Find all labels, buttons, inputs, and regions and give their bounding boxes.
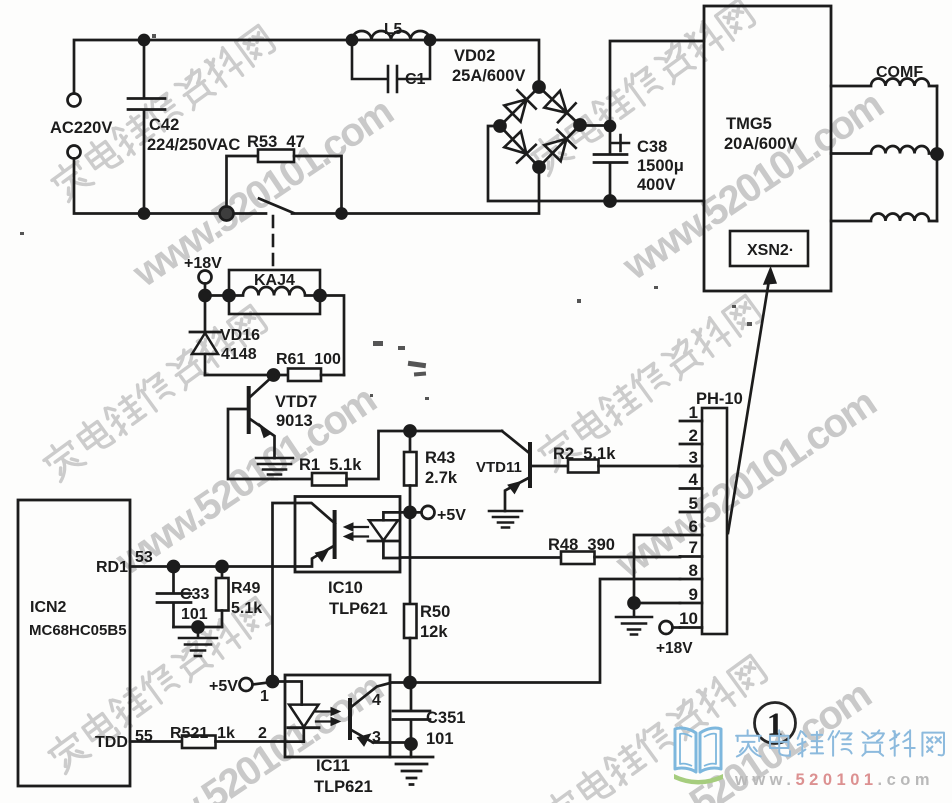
wire C33 R49 join bbox=[174, 626, 223, 629]
wire bottom AC rail right bbox=[292, 167, 539, 214]
page number circled 1 bbox=[755, 703, 796, 744]
capacitor C42 bbox=[128, 40, 165, 214]
wire IC11 pin4 to node bbox=[390, 681, 410, 684]
logo cjk title bbox=[736, 730, 944, 756]
watermark cjk line 3 bbox=[40, 303, 269, 482]
svg-text:1: 1 bbox=[260, 688, 269, 705]
relay coil KAJ4 bbox=[205, 287, 320, 296]
svg-text:ICN2: ICN2 bbox=[30, 599, 67, 616]
svg-text:3: 3 bbox=[689, 448, 698, 467]
node top C42 bbox=[139, 35, 149, 45]
pin 9 bbox=[680, 602, 702, 605]
svg-text:MC68HC05B5: MC68HC05B5 bbox=[29, 622, 127, 639]
AC input terminal top bbox=[68, 94, 81, 107]
wire VTD11 base to R2 bbox=[531, 465, 568, 468]
bridge diode D-bottomleft bbox=[504, 131, 536, 162]
watermark cjk line 5 bbox=[45, 595, 274, 774]
pin 7 bbox=[680, 555, 702, 558]
wire +5V feed left bbox=[273, 503, 296, 682]
svg-text:+18V: +18V bbox=[656, 640, 693, 657]
switch S1 lever bbox=[259, 199, 294, 214]
resistor R521 bbox=[182, 736, 216, 749]
svg-text:R521 1k: R521 1k bbox=[170, 725, 235, 742]
ground pin9 bbox=[616, 603, 652, 635]
site logo book icon bbox=[675, 728, 721, 772]
svg-text:400V: 400V bbox=[637, 176, 676, 194]
capacitor C33 bbox=[157, 567, 191, 628]
resistor R1 bbox=[312, 473, 347, 486]
svg-text:R53 47: R53 47 bbox=[247, 133, 305, 151]
capacitor C38 bbox=[594, 126, 627, 201]
svg-text:2: 2 bbox=[689, 426, 698, 445]
resistor R50 bbox=[404, 604, 417, 638]
node bridge top bbox=[534, 82, 545, 93]
svg-text:1: 1 bbox=[689, 403, 698, 422]
scan noise specks bbox=[20, 34, 752, 400]
svg-text:R43: R43 bbox=[425, 449, 455, 467]
terminal +18V bbox=[199, 271, 212, 284]
watermark cjk line 4 bbox=[535, 293, 764, 472]
transistor VTD7 9013 bbox=[247, 388, 251, 432]
bridge diode D-topright bbox=[544, 91, 575, 123]
inductor COMF winding 3 bbox=[831, 214, 937, 221]
svg-text:R50: R50 bbox=[420, 603, 450, 621]
svg-text:TLP621: TLP621 bbox=[329, 600, 388, 618]
svg-text:4: 4 bbox=[689, 470, 699, 489]
wire COMF common bbox=[936, 86, 939, 221]
wire top AC rail bbox=[74, 40, 539, 94]
svg-text:TMG5: TMG5 bbox=[726, 115, 772, 133]
ground VTD7 bbox=[256, 458, 293, 479]
svg-text:PH-10: PH-10 bbox=[696, 390, 743, 408]
svg-text:9013: 9013 bbox=[276, 412, 313, 430]
bridge diode D-bottomright bbox=[544, 130, 576, 161]
module TMG5 box bbox=[704, 6, 831, 291]
wire RD1 bbox=[130, 565, 295, 568]
optocoupler IC11 box bbox=[285, 675, 390, 757]
optocoupler IC10 box bbox=[295, 497, 400, 573]
wire R1 to node bbox=[347, 431, 503, 479]
diode VD16 4148 bbox=[204, 296, 207, 333]
svg-text:2.7k: 2.7k bbox=[425, 469, 458, 487]
svg-text:9: 9 bbox=[689, 585, 698, 604]
ground C33 bbox=[179, 627, 217, 656]
wire R50 column bbox=[409, 518, 412, 605]
watermark cjk line 2 bbox=[528, 0, 757, 176]
svg-text:TLP621: TLP621 bbox=[314, 778, 373, 796]
wire bridge plus to C38 bbox=[580, 41, 704, 126]
pin 4 bbox=[680, 487, 702, 490]
IC ICN2 MC68HC05B5 box bbox=[18, 500, 130, 786]
svg-text:VTD7: VTD7 bbox=[275, 393, 317, 411]
svg-text:VD02: VD02 bbox=[454, 47, 495, 65]
svg-text:R2 5.1k: R2 5.1k bbox=[553, 445, 616, 463]
svg-text:IC10: IC10 bbox=[328, 579, 363, 597]
svg-text:101: 101 bbox=[426, 730, 454, 748]
wire IC11 pin3 to C351 bottom bbox=[390, 741, 411, 744]
svg-text:2: 2 bbox=[258, 725, 267, 742]
svg-text:RD1: RD1 bbox=[96, 559, 128, 576]
pin 5 bbox=[680, 511, 702, 514]
ground C351 bbox=[390, 757, 433, 785]
AC input terminal bottom bbox=[68, 146, 81, 159]
terminal +18V pin10 bbox=[660, 621, 673, 634]
pin 10 bbox=[680, 626, 702, 629]
node bridge right bbox=[575, 120, 586, 131]
svg-text:53: 53 bbox=[135, 549, 153, 566]
wire +18V down bbox=[204, 284, 207, 296]
capacitor C1 bbox=[352, 40, 430, 92]
resistor R61 bbox=[288, 369, 321, 382]
node bottom C42 bbox=[139, 209, 149, 219]
wire R2 to PH pin3 bbox=[599, 465, 703, 468]
IC10 light arrows bbox=[351, 527, 368, 537]
svg-text:R49: R49 bbox=[231, 580, 260, 597]
transistor VTD11 bbox=[528, 444, 532, 486]
wire pin6 to ground bbox=[634, 535, 680, 603]
relay KAJ4 box bbox=[229, 270, 320, 314]
svg-text:www.520101.com: www.520101.com bbox=[734, 771, 934, 789]
wire TDD bbox=[130, 740, 182, 743]
inductor L5 bbox=[352, 31, 430, 40]
inductor COMF winding 1 bbox=[831, 79, 937, 87]
IC10 led bbox=[383, 512, 400, 520]
pin 8 bbox=[680, 578, 702, 581]
svg-text:R1 5.1k: R1 5.1k bbox=[299, 456, 362, 474]
svg-text:C351: C351 bbox=[426, 709, 465, 727]
svg-text:VD16: VD16 bbox=[220, 327, 260, 344]
wire coil right to R61 bbox=[320, 296, 344, 376]
resistor R2 bbox=[568, 460, 599, 473]
node bridge bottom bbox=[534, 162, 545, 173]
bridge diode D-topleft bbox=[504, 90, 536, 122]
svg-text:C1: C1 bbox=[405, 71, 426, 88]
wire DC minus rail bbox=[488, 126, 704, 201]
svg-text:1500μ: 1500μ bbox=[637, 157, 684, 175]
connector XSN2 box bbox=[730, 231, 808, 266]
svg-text:TDD: TDD bbox=[95, 734, 128, 751]
inductor COMF winding 2 bbox=[831, 146, 937, 154]
wire pin8 long route bbox=[411, 579, 680, 683]
watermark cjk line 1 bbox=[48, 23, 277, 202]
svg-text:VTD11: VTD11 bbox=[476, 459, 522, 476]
svg-text:C42: C42 bbox=[149, 116, 179, 134]
svg-text:L5: L5 bbox=[384, 21, 402, 38]
ground VTD11 bbox=[489, 511, 522, 528]
svg-text:224/250VAC: 224/250VAC bbox=[147, 136, 240, 154]
svg-text:C38: C38 bbox=[637, 138, 667, 156]
wire VD16 to R61 bbox=[205, 374, 288, 377]
svg-text:5.1k: 5.1k bbox=[231, 600, 262, 617]
svg-text:101: 101 bbox=[181, 606, 208, 623]
node bridge left bbox=[495, 121, 506, 132]
svg-text:7: 7 bbox=[689, 538, 698, 557]
wire VTD7 base bbox=[228, 409, 312, 479]
pin 2 bbox=[680, 443, 702, 446]
resistor R53 bbox=[227, 156, 259, 214]
IC11 phototransistor bbox=[348, 700, 352, 738]
pin 6 bbox=[680, 534, 702, 537]
svg-text:+5V: +5V bbox=[437, 507, 466, 524]
watermark cjk line 6 bbox=[540, 653, 769, 803]
logo green swoosh bbox=[674, 774, 723, 785]
svg-text:25A/600V: 25A/600V bbox=[452, 67, 525, 85]
svg-text:IC11: IC11 bbox=[316, 757, 350, 775]
svg-text:C33: C33 bbox=[180, 586, 209, 603]
dashed actuation link bbox=[272, 216, 275, 267]
svg-text:XSN2·: XSN2· bbox=[747, 242, 794, 259]
svg-text:KAJ4: KAJ4 bbox=[254, 272, 295, 289]
wire +5V node at IC10 bbox=[400, 511, 422, 514]
svg-text:5: 5 bbox=[689, 494, 698, 513]
wire pin9 to ground node bbox=[634, 602, 680, 605]
pin 1 bbox=[680, 420, 702, 423]
pin 3 bbox=[680, 465, 702, 468]
svg-text:4148: 4148 bbox=[221, 346, 257, 363]
capacitor C351 bbox=[393, 683, 430, 758]
svg-text:6: 6 bbox=[689, 517, 698, 536]
wire bottom AC rail left bbox=[74, 159, 266, 214]
IC11 light arrows bbox=[316, 712, 333, 722]
resistor R43 bbox=[409, 431, 412, 452]
svg-text:4: 4 bbox=[372, 692, 381, 709]
resistor R49 bbox=[221, 567, 224, 579]
IC10 phototransistor bbox=[333, 512, 337, 557]
svg-text:12k: 12k bbox=[420, 623, 448, 641]
svg-text:10: 10 bbox=[679, 609, 698, 628]
IC11 led bbox=[273, 682, 302, 705]
svg-text:+5V: +5V bbox=[209, 678, 238, 695]
arrow to XSN2 bbox=[728, 274, 770, 533]
svg-text:20A/600V: 20A/600V bbox=[724, 135, 797, 153]
svg-text:COMF: COMF bbox=[876, 64, 923, 81]
svg-text:R61 100: R61 100 bbox=[276, 351, 341, 368]
svg-text:8: 8 bbox=[689, 561, 698, 580]
svg-text:AC220V: AC220V bbox=[50, 119, 112, 137]
